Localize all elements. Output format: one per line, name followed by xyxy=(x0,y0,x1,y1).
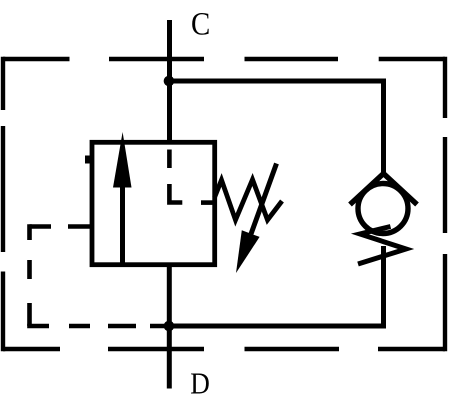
adjust arrow shaft xyxy=(251,164,277,235)
pilot line left vertical xyxy=(27,224,32,326)
pilot corner inside square xyxy=(169,184,182,203)
valve body square xyxy=(92,142,215,264)
port C line xyxy=(167,20,172,142)
tick on left edge xyxy=(85,156,90,164)
check valve seat xyxy=(350,174,417,205)
wire bottom branch to check valve xyxy=(170,246,384,326)
wire square to D xyxy=(167,265,172,389)
svg-text:C: C xyxy=(191,5,210,42)
envelope border left xyxy=(1,57,5,351)
wire top branch to check valve xyxy=(169,81,384,176)
junction node bottom xyxy=(164,321,175,332)
envelope border bottom xyxy=(3,347,445,351)
junction node top xyxy=(164,76,175,87)
flow arrow shaft xyxy=(120,183,125,265)
pilot line left horizontal xyxy=(30,224,92,229)
envelope border top xyxy=(3,57,445,61)
check valve spring xyxy=(358,227,406,265)
flow arrow head xyxy=(113,132,132,188)
svg-text:D: D xyxy=(190,367,210,400)
check valve ball xyxy=(358,184,408,234)
pilot dash to spring xyxy=(201,200,215,205)
envelope border right xyxy=(443,57,447,351)
adjust arrow head xyxy=(236,230,260,273)
spring adjustable xyxy=(215,180,283,221)
pilot line bottom horizontal xyxy=(27,324,169,329)
pilot dash inside square top xyxy=(167,150,172,169)
